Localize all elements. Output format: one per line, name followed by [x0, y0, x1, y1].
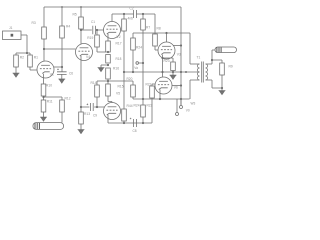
- svg-text:C9: C9: [93, 114, 97, 118]
- svg-text:R11: R11: [47, 100, 53, 104]
- wire R44 bottom lead: [123, 121, 125, 123]
- wire V1 right electrode to C6: [54, 66, 62, 68]
- wire R24b to bus: [132, 97, 134, 99]
- wire V3 cathode to V6 plate: [162, 55, 164, 78]
- wire R13 bottom lead: [80, 124, 82, 127]
- ground below R13: [78, 127, 85, 134]
- wire tap3 to R24b: [108, 81, 133, 85]
- wire R1 top lead: [29, 53, 31, 55]
- node speaker zobel: [211, 59, 213, 61]
- wire cathode row y123: [108, 122, 152, 124]
- resistor R5: [79, 17, 84, 29]
- node V4 cathode C9: [80, 106, 82, 108]
- wire R14 bottom lead: [96, 97, 98, 107]
- connector J1 input jack: [3, 31, 22, 40]
- wire R11 top lead: [43, 97, 45, 100]
- transformer T1 secondary winding: [206, 64, 208, 80]
- svg-text:V1: V1: [50, 73, 54, 77]
- wire R22 to cathode row: [151, 98, 153, 123]
- capacitor C1: [93, 26, 96, 34]
- node input junction: [26, 52, 28, 54]
- wire secondary top lead: [206, 50, 216, 64]
- wire plate bus corner down: [189, 33, 191, 64]
- svg-text:R14: R14: [91, 81, 97, 85]
- node C6 junction: [61, 66, 63, 68]
- pentode V3: [158, 42, 175, 59]
- wire R2 top lead: [15, 53, 17, 55]
- node bus B+ cross: [180, 98, 182, 100]
- wire R8 to V3 grid: [155, 46, 158, 50]
- wire R1 to V1 grid: [30, 67, 37, 70]
- wire primary top lead: [190, 63, 200, 65]
- wire tap3 horizontal: [97, 80, 108, 82]
- ground output: [219, 88, 226, 95]
- wire V6 screen wire: [172, 85, 181, 87]
- svg-text:W3: W3: [191, 102, 196, 106]
- svg-text:R18: R18: [116, 57, 122, 61]
- svg-text:J1: J1: [9, 26, 13, 30]
- svg-text:R19: R19: [87, 36, 93, 40]
- node V3 plate: [165, 32, 167, 34]
- resistor R10: [41, 84, 46, 96]
- resistor R8: [153, 34, 158, 46]
- resistor chain Rb: [106, 55, 111, 64]
- wire V3 plate lead: [166, 33, 168, 42]
- wire R4 top lead: [61, 7, 63, 26]
- svg-text:R20: R20: [127, 77, 133, 81]
- svg-text:R44: R44: [127, 104, 133, 108]
- resistor R2: [14, 55, 19, 67]
- node R7 top: [142, 13, 144, 15]
- wire input divider top: [16, 52, 30, 54]
- wire V5 cathode lead: [107, 115, 109, 123]
- node bias line: [123, 71, 125, 73]
- node R21 bottom: [142, 122, 144, 124]
- svg-text:V3: V3: [177, 53, 181, 57]
- wire R19 bottom lead: [97, 47, 106, 52]
- resistor R6: [122, 19, 127, 31]
- transformer T1 core: [202, 62, 204, 83]
- svg-text:T1: T1: [197, 56, 201, 60]
- resistor R4: [60, 26, 65, 38]
- wire bottom bus: [133, 98, 190, 100]
- wire R12 to feedback line: [61, 112, 63, 123]
- pentode V4: [76, 44, 93, 61]
- wire V3 screen to B+: [173, 45, 181, 47]
- resistor R21: [141, 105, 146, 117]
- svg-text:Va: Va: [134, 66, 138, 70]
- pentode V5: [104, 103, 121, 120]
- resistor R11: [41, 100, 46, 112]
- wire V4 cathode line: [80, 56, 82, 107]
- wire bias line y72: [124, 71, 200, 73]
- capacitor C9: [81, 103, 97, 111]
- resistor R9: [220, 63, 225, 75]
- wire plate bus y33: [133, 32, 190, 34]
- svg-text:R17: R17: [116, 42, 122, 46]
- svg-text:C1: C1: [91, 20, 95, 24]
- node cathode divider: [42, 96, 44, 98]
- speaker LS1: [215, 47, 237, 53]
- wire tap2 to ground: [101, 64, 108, 66]
- svg-text:V0: V0: [186, 109, 190, 113]
- node output ground: [221, 87, 223, 89]
- node R23 stub: [161, 57, 163, 59]
- svg-text:R23: R23: [164, 59, 170, 63]
- triode V1: [37, 61, 54, 78]
- resistor R15: [106, 84, 111, 96]
- wire R6 top lead: [123, 14, 125, 19]
- wire R23 stub: [163, 58, 174, 62]
- wire R3 top lead: [43, 7, 45, 27]
- capacitor C8: [134, 119, 137, 127]
- node chain tap2: [107, 64, 109, 66]
- svg-text:V6: V6: [174, 86, 178, 90]
- wire terminal stub: [139, 62, 143, 64]
- node V6 cathode bus: [159, 98, 161, 100]
- wire V1 plate to V4 grid: [44, 48, 76, 50]
- wire R15 to V5 plate: [108, 96, 112, 103]
- wire R11 bottom lead: [43, 112, 45, 115]
- node V3 screen: [180, 44, 182, 46]
- svg-text:V4: V4: [86, 55, 90, 59]
- wire top supply rail: [44, 6, 181, 8]
- node V2 grid: [96, 29, 98, 31]
- node rail-R5: [80, 6, 82, 8]
- node chain tap1: [107, 51, 109, 53]
- svg-text:R4: R4: [66, 25, 70, 29]
- wire terminal stub1: [176, 99, 178, 112]
- svg-text:R13: R13: [84, 112, 90, 116]
- wire Rc bottom: [107, 79, 109, 81]
- node V1 plate: [43, 48, 45, 50]
- resistor R14: [95, 85, 100, 97]
- svg-text:C8: C8: [133, 129, 137, 133]
- wire primary bottom to bus: [189, 80, 191, 99]
- svg-text:R12: R12: [65, 97, 71, 101]
- node chain tap3: [107, 80, 109, 82]
- resistor R1: [28, 55, 33, 67]
- svg-text:R15: R15: [118, 85, 124, 89]
- ground below R11: [40, 115, 47, 122]
- resistor R3: [42, 27, 47, 39]
- component B1 cylinder: [33, 123, 64, 130]
- pentode V2: [104, 22, 121, 39]
- capacitor C6: [57, 67, 67, 76]
- wire secondary bottom lead: [206, 80, 223, 88]
- svg-text:R3: R3: [32, 21, 36, 25]
- node V6 screen: [180, 84, 182, 86]
- node R44 bottom: [123, 122, 125, 124]
- wire V2 plate lead: [111, 14, 113, 22]
- svg-text:R10: R10: [46, 84, 52, 88]
- resistor chain Rc: [106, 68, 111, 79]
- resistor R13: [79, 112, 84, 124]
- resistor R12: [60, 100, 65, 112]
- resistor chain Ra: [106, 41, 111, 52]
- svg-text:R7: R7: [146, 26, 150, 30]
- resistor R44: [122, 109, 127, 121]
- svg-text:R8: R8: [157, 27, 161, 31]
- terminal P1: [176, 113, 179, 116]
- terminal Va: [136, 62, 139, 65]
- wire divider horizontal: [44, 96, 63, 98]
- wire J1 to grid node: [21, 35, 27, 53]
- node R23 ground: [172, 71, 174, 73]
- wire R21 bottom lead: [142, 117, 144, 123]
- resistor R24a: [131, 38, 136, 50]
- ground at chain tap: [98, 65, 105, 72]
- wire R2 bottom lead: [15, 67, 17, 71]
- wire zobel to R9: [212, 60, 222, 63]
- svg-text:R9: R9: [229, 65, 233, 69]
- wire V2 plate row: [112, 13, 155, 15]
- svg-text:R5: R5: [73, 13, 77, 17]
- wire R5 top lead: [80, 7, 82, 17]
- wire R14 top lead: [96, 81, 98, 85]
- wire R24a top lead: [132, 33, 134, 38]
- resistor R19: [95, 35, 100, 47]
- wire V5 grid wire: [97, 106, 104, 108]
- svg-text:V2: V2: [117, 35, 121, 39]
- svg-text:R24: R24: [134, 104, 140, 108]
- resistor R23: [171, 62, 176, 71]
- wire R24a to bias line: [132, 50, 134, 72]
- node bias B+ cross: [180, 71, 182, 73]
- node R7 bus cross: [142, 98, 144, 100]
- wire C1 left lead: [81, 29, 92, 31]
- wire R13 top lead: [80, 107, 82, 112]
- transformer T1 primary winding: [198, 64, 200, 80]
- node terminal stub: [142, 62, 144, 64]
- wire R5 to C1 node: [80, 29, 82, 44]
- wire V2 cathode lead: [107, 34, 109, 41]
- wire B+ vertical right: [180, 7, 182, 105]
- node bias R24 branch: [132, 71, 134, 73]
- ground below C6: [58, 76, 65, 83]
- wire R10 bottom: [43, 96, 45, 97]
- node V5 grid: [96, 106, 98, 108]
- terminal P2: [180, 106, 183, 109]
- wire R7 top lead: [142, 14, 144, 19]
- svg-text:C6: C6: [69, 72, 73, 76]
- wire R7 long vertical: [142, 30, 144, 105]
- node center tap join: [185, 71, 187, 73]
- svg-text:R16: R16: [113, 67, 119, 71]
- wire R15 top lead: [107, 81, 109, 84]
- wire R19 top lead: [96, 30, 98, 35]
- node rail-R4: [61, 6, 63, 8]
- svg-text:V5: V5: [116, 92, 120, 96]
- svg-text:R24: R24: [136, 46, 142, 50]
- wire R23 bottom lead: [172, 71, 174, 73]
- ground below R2: [13, 71, 20, 78]
- capacitor C2: [134, 10, 137, 18]
- svg-text:R2: R2: [20, 55, 24, 59]
- pentode V6: [155, 77, 172, 94]
- resistor R7: [141, 19, 146, 30]
- svg-text:C2: C2: [130, 7, 134, 11]
- resistor R24b: [131, 85, 136, 97]
- wire V1 cathode lead: [43, 74, 45, 84]
- wire R3 to V1 plate: [43, 39, 45, 61]
- wire R8 top lead: [154, 14, 156, 34]
- wire R4 bottom lead: [61, 38, 63, 67]
- svg-text:R1: R1: [34, 55, 38, 59]
- node V4 plate C1: [80, 29, 82, 31]
- wire R6 to bias node: [123, 31, 125, 109]
- wire V6 cathode lead: [159, 90, 161, 100]
- wire C1 to V2 grid: [97, 29, 104, 31]
- node R6 top: [123, 13, 125, 15]
- svg-text:4n6: 4n6: [128, 17, 134, 21]
- node SRPP mid: [161, 71, 163, 73]
- wire primary bottom lead: [190, 79, 200, 81]
- resistor R22: [150, 86, 155, 98]
- wire terminal stub2: [180, 99, 182, 105]
- wire R12 top lead: [61, 97, 63, 100]
- ground below R23: [170, 73, 177, 80]
- wire V6 grid wire: [152, 84, 155, 86]
- wire R9 bottom lead: [221, 75, 223, 88]
